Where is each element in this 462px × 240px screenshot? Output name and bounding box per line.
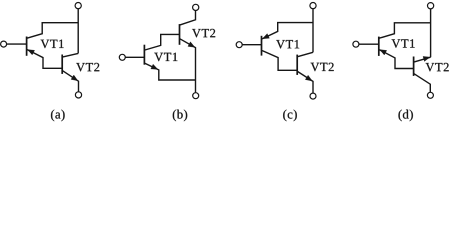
transistor VT2 (a) emitter arrow (NPN, points outward) bbox=[71, 75, 78, 81]
transistor VT1 (d) base bar bbox=[378, 37, 380, 56]
transistor VT1 (b) base bar bbox=[143, 45, 145, 65]
wire VT1 collector to VT2 base (b) bbox=[145, 34, 180, 50]
output terminal bottom (b) bbox=[193, 93, 199, 99]
transistor VT1 (a) emitter arrow (PNP, points to base bar) bbox=[28, 50, 35, 55]
transistor VT1 (b) emitter wire down to bottom rail (b) bbox=[145, 63, 196, 80]
wire VT2 emitter to output terminal (c) bbox=[297, 71, 313, 93]
transistor VT2 (c) emitter arrow (NPN, points outward) bbox=[305, 75, 312, 81]
wire base VT1 (d) bbox=[359, 43, 379, 45]
label VT1 (c) bbox=[276, 40, 299, 49]
label VT2 (d) bbox=[426, 63, 449, 72]
wire VT2 emitter up to top vertical (d) bbox=[414, 57, 430, 62]
wire top terminal down to VT2 collector (c) bbox=[312, 9, 314, 53]
transistor VT2 (b) emitter arrow (NPN, points outward) bbox=[188, 42, 195, 48]
wire VT1 collector to top rail (a) bbox=[27, 23, 78, 39]
wire VT1 collector to VT2 base (c) bbox=[262, 51, 297, 71]
label VT2 (c) bbox=[311, 63, 334, 71]
transistor VT2 (d) emitter arrow (NPN drawn upward, points outward) bbox=[423, 56, 430, 61]
wire top terminal down to VT2 collector (a) bbox=[77, 9, 79, 54]
wire VT2 collector diagonal (a) bbox=[62, 53, 78, 57]
transistor VT2 (b) base bar bbox=[179, 24, 181, 45]
wire base VT1 (b) bbox=[125, 56, 144, 58]
transistor VT1 (d) emitter wire to VT2 base (d) bbox=[379, 50, 413, 69]
input terminal (c) bbox=[236, 42, 242, 48]
wire VT1 emitter up to top rail (c) bbox=[262, 23, 313, 39]
power terminal top (b) bbox=[193, 4, 199, 10]
caption (d) bbox=[399, 110, 413, 122]
output terminal bottom (d) bbox=[427, 92, 433, 98]
transistor VT1 (d) emitter arrow (PNP, points to base bar) bbox=[380, 50, 387, 55]
transistor VT1 (b) emitter arrow (NPN, points outward) bbox=[151, 64, 158, 69]
wire base VT1 (a) bbox=[7, 43, 27, 45]
label VT1 (b) bbox=[154, 53, 177, 62]
transistor VT1 (c) emitter arrow (PNP, points to base bar) bbox=[262, 34, 269, 39]
output terminal bottom (a) bbox=[75, 92, 81, 98]
wire top terminal down to VT2 emitter junction (d) bbox=[430, 9, 432, 57]
wire VT2 emitter down to output terminal (b) bbox=[180, 39, 196, 93]
wire VT2 collector to output terminal (d) bbox=[414, 74, 430, 92]
output terminal bottom (c) bbox=[310, 93, 316, 99]
wire VT2 collector to top terminal (b) bbox=[180, 11, 196, 25]
transistor VT1 (a) base bar bbox=[26, 37, 28, 56]
transistor VT1 (a) emitter wire to VT2 base bbox=[27, 50, 62, 69]
input terminal (d) bbox=[353, 41, 359, 47]
transistor VT1 (c) base bar bbox=[261, 36, 263, 56]
caption (c) bbox=[283, 110, 297, 122]
transistor VT2 (d) base bar bbox=[413, 57, 415, 76]
label VT1 (d) bbox=[392, 39, 415, 48]
input terminal (a) bbox=[1, 41, 7, 47]
power terminal top (a) bbox=[75, 3, 81, 9]
input terminal (b) bbox=[119, 54, 125, 60]
label VT2 (b) bbox=[192, 29, 215, 38]
caption (b) bbox=[173, 110, 187, 122]
transistor VT2 (c) base bar bbox=[296, 55, 298, 75]
label VT2 (a) bbox=[76, 63, 99, 72]
caption (a) bbox=[51, 110, 65, 122]
wire VT1 collector to top rail (d) bbox=[379, 23, 430, 38]
power terminal top (d) bbox=[428, 3, 434, 9]
wire VT2 collector diagonal (c) bbox=[298, 52, 314, 56]
wire base VT1 (c) bbox=[242, 44, 261, 46]
label VT1 (a) bbox=[41, 40, 64, 49]
transistor VT2 (a) base bar bbox=[61, 55, 63, 74]
wire VT2 emitter to output terminal (a) bbox=[62, 70, 79, 91]
power terminal top (c) bbox=[310, 3, 316, 9]
